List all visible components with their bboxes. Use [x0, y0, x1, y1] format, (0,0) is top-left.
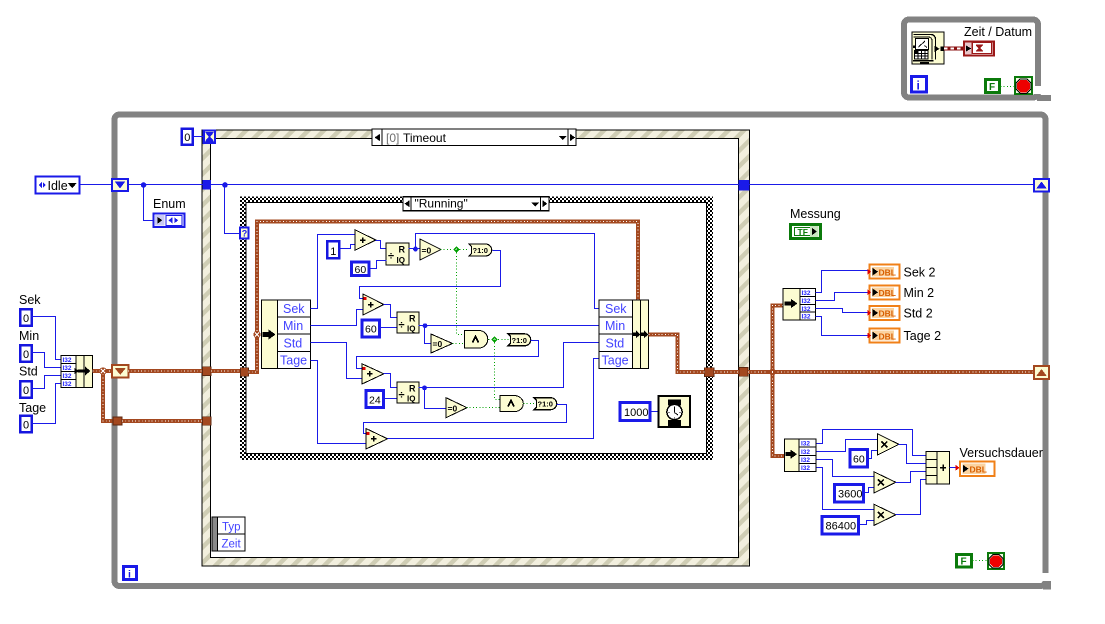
- indicator DBL Min 2: [868, 285, 900, 299]
- equal-zero function (row1): [420, 239, 441, 260]
- wire timestamp (maroon dashed): [944, 47, 963, 51]
- numeric constant 86400: [822, 517, 859, 535]
- quotient-remainder function (row3): [397, 382, 419, 404]
- svg-text:Min 2: Min 2: [904, 286, 935, 300]
- wire 60 to qr1: [369, 261, 387, 269]
- equal-zero function (row3): [446, 398, 467, 418]
- svg-text:Sek: Sek: [283, 302, 305, 316]
- wire 0 to hourglass: [193, 136, 204, 138]
- wire select2 to add3: [357, 341, 539, 369]
- bundle by name node (Sek/Min/Std/Tage): [599, 300, 649, 369]
- svg-text:DBL: DBL: [879, 331, 896, 341]
- wire 1000 to wait: [651, 411, 659, 413]
- wire select1 to add2: [360, 251, 501, 299]
- event tunnel brown (left lower): [203, 417, 212, 425]
- event tunnel brown (right): [739, 368, 748, 377]
- svg-text:I32: I32: [63, 381, 72, 388]
- svg-text:I32: I32: [801, 441, 810, 448]
- svg-text:Versuchsdauer: Versuchsdauer: [960, 446, 1043, 460]
- wire brown event tunnel to case tunnel: [211, 369, 241, 373]
- svg-text:Min: Min: [283, 319, 303, 333]
- svg-text:i: i: [917, 79, 920, 93]
- svg-text:?1:0: ?1:0: [473, 246, 488, 255]
- compound arithmetic node (+): [926, 451, 949, 484]
- wire 60b to qr2: [380, 327, 397, 329]
- wire green down to and2: [457, 250, 465, 335]
- svg-text:IQ: IQ: [407, 325, 415, 334]
- numeric constant 0 (Sek): [20, 309, 32, 326]
- wire SR to event tunnel (blue) with junction: [129, 182, 203, 188]
- svg-text:Zeit: Zeit: [222, 539, 242, 551]
- wire Min0 to bundle: [32, 353, 61, 368]
- svg-text:÷: ÷: [399, 390, 405, 402]
- svg-text:Zeit / Datum: Zeit / Datum: [964, 25, 1032, 39]
- wire Sek to add1: [311, 235, 355, 309]
- wire qr1 to bundle Sek: [416, 234, 599, 309]
- svg-text:Tage: Tage: [602, 354, 629, 368]
- svg-text:F: F: [989, 82, 995, 93]
- case selector terminal ?: [240, 228, 249, 239]
- wire junction branch down to tunnel (brown): [99, 367, 113, 421]
- event tunnel blue (left): [203, 180, 212, 190]
- iteration terminal i (main loop): [124, 567, 137, 581]
- and function (row2): [465, 331, 488, 349]
- wire and2 to select2 (green): [489, 336, 509, 342]
- select function row2 (?1:0): [508, 334, 531, 346]
- numeric constant 0 (Std): [20, 381, 32, 398]
- svg-text:0: 0: [184, 132, 190, 144]
- wire add2 to qr2: [384, 305, 397, 318]
- wire Tage0 to bundle: [32, 384, 61, 424]
- case tunnel brown (left): [241, 368, 249, 376]
- wire compound to Versuchsdauer: [950, 465, 960, 471]
- and function (row3): [500, 396, 523, 412]
- svg-text:I32: I32: [801, 465, 810, 472]
- svg-text:Sek: Sek: [605, 302, 627, 316]
- iteration terminal i (top-right loop): [912, 77, 927, 93]
- indicator DBL Tage 2: [868, 329, 900, 343]
- select function row3 (?1:0): [534, 398, 557, 410]
- svg-text:F: F: [961, 557, 967, 568]
- wire qr3 out to bundle Std with junction: [419, 343, 599, 391]
- svg-text:I32: I32: [63, 373, 72, 380]
- svg-text:60: 60: [853, 454, 865, 466]
- svg-text:÷: ÷: [399, 320, 405, 332]
- numeric constant 1000: [620, 403, 650, 421]
- wire qr1 R out with junction: [409, 247, 421, 252]
- wire brown case tunnel to event tunnel (right): [714, 370, 739, 374]
- quotient-remainder function (row1): [386, 243, 409, 265]
- shift register left (blue): [112, 179, 128, 191]
- unbundle by name node (Sek/Min/Std/Tage): [262, 300, 311, 369]
- numeric constant 60 (Versuchsdauer): [850, 450, 868, 468]
- wire event right tunnel to blue SR: [750, 184, 1035, 186]
- main while loop border: [115, 115, 1052, 590]
- wire brown tunnel to event tunnel (lower): [122, 419, 203, 423]
- while loop (top-right, Zeit/Datum) border: [904, 20, 1051, 102]
- numeric constant 0 (Tage): [20, 416, 32, 433]
- svg-text:Std: Std: [606, 337, 625, 351]
- svg-text:I32: I32: [63, 365, 72, 372]
- wire qr3 down to eq3: [425, 388, 447, 409]
- svg-text:Sek: Sek: [19, 293, 41, 307]
- numeric constant 1: [327, 241, 339, 258]
- tunnel on while border (brown): [113, 417, 122, 425]
- svg-text:DBL: DBL: [879, 309, 896, 319]
- wire 24 to qr3: [384, 398, 397, 400]
- multiply function 3: [874, 504, 896, 525]
- svg-text:86400: 86400: [826, 521, 857, 533]
- svg-text:R: R: [409, 384, 416, 394]
- svg-text:=0: =0: [448, 404, 458, 414]
- stop button (main loop): [988, 553, 1004, 569]
- boolean constant F (main loop): [957, 555, 972, 568]
- numeric constant 3600: [835, 485, 864, 503]
- svg-text:÷: ÷: [388, 251, 394, 263]
- event timeout terminal (hourglass): [202, 129, 216, 144]
- multiply function 2: [874, 472, 896, 493]
- svg-text:?: ?: [242, 229, 248, 239]
- svg-text:i: i: [128, 569, 131, 581]
- svg-text:I32: I32: [802, 314, 811, 321]
- svg-text:1: 1: [330, 246, 336, 258]
- wire qr2 down to eq2: [425, 326, 431, 344]
- case tunnel brown (right): [705, 368, 715, 377]
- svg-text:0: 0: [23, 420, 29, 432]
- svg-text:Std 2: Std 2: [904, 307, 933, 321]
- svg-text:0: 0: [23, 313, 29, 325]
- wire mult2 to compound in3: [896, 472, 927, 483]
- svg-text:I32: I32: [802, 290, 811, 297]
- svg-text:Min: Min: [605, 319, 625, 333]
- wire F to stop (top-right loop): [1001, 86, 1015, 88]
- wire 86400 to mult3: [859, 521, 875, 525]
- svg-text:Messung: Messung: [790, 207, 841, 221]
- wire eq2 to and2 (green): [453, 343, 465, 345]
- wire mult1 to compound in2: [899, 445, 927, 464]
- bundle node (4x I32): [61, 356, 93, 389]
- shift register right blue: [1034, 179, 1049, 192]
- wait ms function (wristwatch icon): [659, 396, 691, 427]
- multiply function 1: [878, 434, 899, 455]
- wire brown SR to event tunnel: [128, 369, 203, 373]
- svg-text:0: 0: [23, 385, 29, 397]
- add function (row2): [363, 294, 384, 315]
- wire brown event tunnel right to shift register with junction: [748, 367, 1034, 377]
- wire unbundle2 r3 to Std2: [816, 309, 869, 313]
- numeric constant 0 (timeout): [182, 129, 193, 145]
- svg-text:DBL: DBL: [879, 268, 896, 278]
- svg-text:?1:0: ?1:0: [512, 336, 527, 345]
- wire branch down to Enum indicator: [144, 185, 153, 221]
- wire unbundle2 r2 to Min2: [816, 293, 869, 301]
- wire Tage to add4: [311, 361, 367, 444]
- svg-text:Tage: Tage: [19, 401, 46, 415]
- wire eq1 to select1 (green): [441, 246, 469, 252]
- wire brown down to unbundle3: [773, 372, 785, 456]
- svg-text:60: 60: [365, 324, 377, 336]
- event tunnel blue (right): [739, 180, 750, 191]
- svg-text:Min: Min: [19, 329, 39, 343]
- wire bundle output brown to case tunnel: [649, 335, 705, 373]
- svg-text:0: 0: [23, 349, 29, 361]
- svg-text:Timeout: Timeout: [403, 131, 447, 145]
- unbundle by name node 3 (4x I32): [785, 439, 817, 472]
- numeric constant 0 (Min): [20, 345, 32, 362]
- svg-text:Std: Std: [19, 365, 38, 379]
- svg-text:=0: =0: [433, 339, 443, 349]
- svg-text:I32: I32: [63, 357, 72, 364]
- svg-text:Std: Std: [284, 337, 303, 351]
- enum constant Idle: [36, 177, 80, 194]
- event tunnel brown (left upper): [203, 367, 212, 376]
- wire bundle to shift register (brown): [93, 369, 113, 373]
- svg-text:Idle: Idle: [48, 179, 68, 193]
- add function (row1): [355, 230, 376, 250]
- svg-text:Sek 2: Sek 2: [904, 266, 936, 280]
- wire Std to add3: [311, 343, 363, 379]
- wire Idle to left shift register: [80, 184, 113, 186]
- add function (row3): [362, 364, 384, 384]
- indicator DBL Versuchsdauer: [960, 462, 995, 477]
- svg-text:TF: TF: [798, 227, 808, 237]
- wire 60c to mult1: [868, 451, 878, 459]
- event data node Typ/Zeit: [212, 517, 245, 551]
- wire unbundle3 r2 to mult1: [817, 440, 878, 452]
- indicator Enum: [154, 214, 185, 228]
- svg-text:I32: I32: [801, 449, 810, 456]
- svg-text:IQ: IQ: [407, 395, 415, 404]
- svg-text:Tage: Tage: [280, 354, 307, 368]
- svg-text:24: 24: [369, 395, 381, 407]
- wire unbundle3 r3 to mult2: [817, 460, 875, 477]
- wire green down to and3: [495, 340, 501, 400]
- wire brown cluster frame inside case: [249, 222, 639, 372]
- wire qr2 out to bundle Min with junction: [419, 323, 599, 328]
- wire branch to case selector terminal: [225, 185, 241, 234]
- svg-text:60: 60: [355, 264, 367, 276]
- wire unbundle3 r1 to compound in1: [817, 430, 927, 456]
- svg-text:I32: I32: [802, 306, 811, 313]
- svg-text:"Running": "Running": [415, 197, 468, 211]
- svg-text:DBL: DBL: [879, 288, 896, 298]
- wire Std0 to bundle: [32, 376, 61, 389]
- equal-zero function (row2): [431, 334, 453, 353]
- wire unbundle3 r4 to mult3: [817, 468, 875, 510]
- wire and3 to select3 (green): [524, 403, 535, 405]
- wire F to stop (green dotted): [973, 560, 989, 562]
- case structure border: [240, 197, 713, 461]
- wire add3 to qr3: [384, 374, 397, 388]
- stop button (top-right loop): [1015, 77, 1032, 94]
- quotient-remainder function (row2): [397, 312, 419, 334]
- indicator DBL Std 2: [868, 306, 900, 320]
- wire unbundle2 r4 to Tage2: [816, 317, 869, 336]
- svg-text:1000: 1000: [624, 407, 648, 419]
- wire Sek0 to bundle: [32, 317, 61, 360]
- shift register left (brown): [112, 365, 129, 378]
- svg-text:I32: I32: [801, 457, 810, 464]
- svg-text:3600: 3600: [838, 489, 862, 501]
- svg-text:=0: =0: [422, 246, 432, 256]
- indicator timestamp Zeit / Datum: [964, 42, 994, 56]
- svg-text:R: R: [409, 314, 416, 324]
- wire Min to add2: [311, 310, 363, 326]
- wire add1 to qr1: [376, 241, 387, 249]
- wire add4 to bundle Tage: [388, 359, 599, 439]
- case structure selector label "Running": [403, 197, 549, 211]
- wire unbundle2 r1 to Sek2: [816, 271, 869, 293]
- wire 1 to add1: [339, 245, 355, 249]
- svg-text:R: R: [399, 245, 406, 255]
- svg-text:?1:0: ?1:0: [538, 400, 553, 409]
- event structure selector label [0] Timeout: [372, 129, 576, 146]
- indicator DBL Sek 2: [868, 265, 900, 279]
- numeric constant 60 (row1): [352, 262, 370, 276]
- event structure border: [202, 130, 750, 566]
- boolean terminal Messung (TF): [791, 225, 821, 239]
- wire select3 to add4: [364, 405, 567, 434]
- add function (row4): [366, 429, 388, 450]
- boolean constant F (top-right loop): [986, 80, 1000, 94]
- wire eq3 to and3 (green): [467, 407, 501, 409]
- svg-text:Enum: Enum: [153, 197, 186, 211]
- svg-text:Tage 2: Tage 2: [904, 329, 942, 343]
- wire mult3 to compound in4: [896, 480, 927, 515]
- svg-text:Typ: Typ: [222, 522, 241, 534]
- wire event interior main blue: [211, 182, 739, 188]
- svg-text:DBL: DBL: [970, 465, 987, 475]
- date-time icon (Zeit/Datum VI): [912, 32, 944, 64]
- select function row1 (?1:0): [469, 244, 492, 256]
- unbundle by name node 2 (4x I32): [783, 289, 816, 321]
- wire 3600 to mult2: [864, 488, 875, 493]
- numeric constant 24: [366, 391, 384, 408]
- wire brown up to unbundle2: [773, 305, 785, 372]
- svg-text:[0]: [0]: [386, 131, 399, 145]
- svg-text:IQ: IQ: [397, 256, 405, 265]
- svg-text:I32: I32: [802, 298, 811, 305]
- shift register right brown: [1034, 366, 1049, 379]
- numeric constant 60 (row2): [362, 320, 380, 337]
